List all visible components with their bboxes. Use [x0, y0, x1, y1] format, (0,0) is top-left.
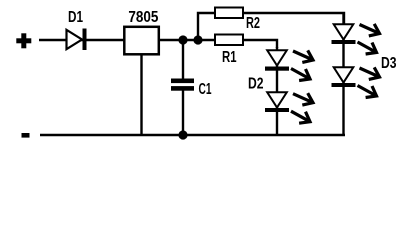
- wire (R2 to D3): [244, 13, 344, 24]
- diode D1: [67, 9, 87, 50]
- node C (junction dot on negative rail): [178, 130, 187, 139]
- resistor R1: [215, 35, 243, 66]
- LED D2 (first): [265, 50, 313, 80]
- wire (D3 chain): [342, 13, 344, 135]
- terminal +: [16, 33, 31, 48]
- node B (junction dot): [193, 35, 202, 44]
- svg-text:R2: R2: [246, 15, 260, 32]
- svg-text:C1: C1: [199, 81, 212, 98]
- resistor R2: [215, 8, 260, 33]
- LED D2 (second): [248, 76, 313, 124]
- wire: [182, 90, 184, 135]
- capacitor C1: [171, 79, 212, 98]
- svg-text:D3: D3: [381, 55, 397, 72]
- wire (D2 chain): [276, 47, 278, 135]
- svg-text:7805: 7805: [128, 9, 158, 26]
- svg-text:D1: D1: [68, 9, 83, 26]
- terminal -: [22, 133, 30, 138]
- regulator U1 7805: [124, 9, 159, 55]
- wire: [39, 39, 214, 41]
- wire (node A up to R2 branch): [198, 13, 214, 40]
- LED D3 (first): [332, 24, 380, 54]
- svg-text:D2: D2: [248, 76, 264, 93]
- LED D3 (second): [332, 55, 397, 97]
- wire (capacitor branch): [182, 40, 184, 79]
- wire (regulator ground pin): [140, 55, 142, 135]
- node A (junction dot): [178, 35, 187, 44]
- wire (negative rail): [40, 134, 345, 136]
- wire (R1 to D2): [244, 40, 277, 48]
- svg-text:R1: R1: [222, 49, 237, 66]
